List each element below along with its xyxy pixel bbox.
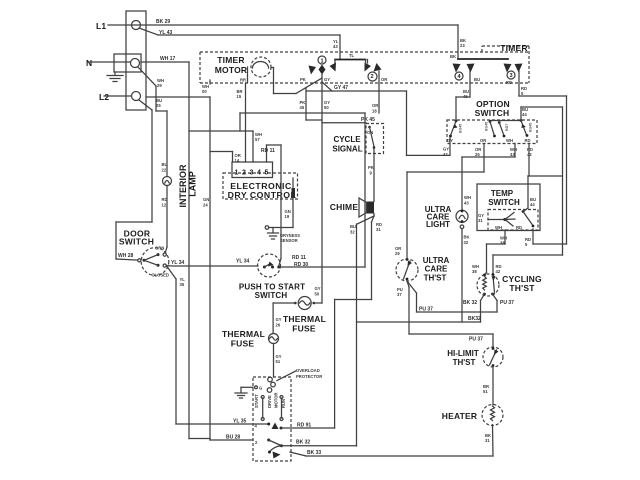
svg-text:BK: BK — [450, 54, 456, 59]
svg-text:BU45: BU45 — [529, 123, 533, 132]
svg-text:TH'ST: TH'ST — [453, 358, 476, 367]
svg-text:L2: L2 — [99, 92, 109, 102]
svg-text:15: 15 — [237, 94, 242, 99]
svg-text:47: 47 — [443, 152, 448, 157]
svg-text:23: 23 — [460, 43, 465, 48]
svg-text:51: 51 — [483, 389, 488, 394]
svg-text:5: 5 — [265, 170, 269, 177]
svg-text:42: 42 — [496, 269, 501, 274]
svg-text:TIMER: TIMER — [217, 55, 244, 65]
svg-text:43: 43 — [510, 152, 515, 157]
svg-text:FUSE: FUSE — [231, 339, 255, 349]
svg-text:RD 11: RD 11 — [292, 255, 306, 261]
svg-text:44: 44 — [530, 202, 535, 207]
svg-text:44: 44 — [522, 112, 527, 117]
svg-text:25: 25 — [156, 103, 161, 108]
svg-text:LAMP: LAMP — [188, 171, 198, 197]
svg-text:YL 43: YL 43 — [159, 30, 172, 36]
svg-text:31: 31 — [478, 218, 483, 223]
svg-text:3: 3 — [509, 73, 512, 79]
svg-text:43: 43 — [464, 201, 469, 206]
svg-text:WH: WH — [464, 195, 471, 200]
svg-text:THERMAL: THERMAL — [283, 314, 326, 324]
svg-text:N: N — [86, 58, 92, 68]
svg-text:GN: GN — [203, 197, 209, 202]
svg-text:TL: TL — [349, 53, 355, 58]
svg-text:START: START — [254, 394, 259, 408]
svg-text:PK 45: PK 45 — [361, 117, 375, 123]
svg-text:MOTOR: MOTOR — [274, 392, 279, 408]
svg-text:WH 28: WH 28 — [118, 253, 134, 259]
svg-text:MOTOR: MOTOR — [215, 65, 247, 75]
svg-text:OR: OR — [480, 138, 486, 143]
svg-text:SENSOR: SENSOR — [280, 238, 298, 243]
svg-text:SWITCH: SWITCH — [475, 108, 510, 118]
svg-text:RD7: RD7 — [505, 124, 509, 131]
svg-text:31: 31 — [376, 227, 381, 232]
svg-text:BU 28: BU 28 — [226, 435, 240, 441]
svg-text:L1: L1 — [96, 21, 106, 31]
svg-text:57: 57 — [255, 137, 260, 142]
svg-text:22: 22 — [162, 168, 167, 173]
svg-text:26: 26 — [475, 152, 480, 157]
svg-text:LIGHT: LIGHT — [426, 220, 450, 229]
svg-text:00: 00 — [202, 89, 207, 94]
svg-text:RR: RR — [240, 78, 246, 83]
svg-text:BU: BU — [350, 224, 356, 229]
svg-text:RD 91: RD 91 — [297, 423, 311, 429]
svg-text:BU: BU — [162, 162, 168, 167]
svg-text:BK 32: BK 32 — [463, 300, 477, 306]
svg-text:29: 29 — [157, 83, 162, 88]
svg-text:4: 4 — [257, 170, 261, 177]
svg-text:FUSE: FUSE — [292, 324, 316, 334]
svg-text:GY 47: GY 47 — [334, 85, 348, 91]
svg-text:3: 3 — [250, 170, 254, 177]
svg-text:BU: BU — [474, 77, 480, 82]
svg-text:CHIME: CHIME — [330, 202, 359, 212]
svg-text:TEMP: TEMP — [491, 189, 514, 198]
svg-text:WH 17: WH 17 — [160, 56, 176, 62]
svg-text:2: 2 — [242, 170, 246, 177]
svg-text:24: 24 — [203, 203, 208, 208]
svg-text:BK 32: BK 32 — [296, 440, 310, 446]
svg-text:RD: RD — [506, 80, 512, 85]
svg-text:SWITCH: SWITCH — [255, 291, 288, 300]
svg-text:38: 38 — [472, 269, 477, 274]
svg-text:12: 12 — [162, 203, 167, 208]
svg-text:GY: GY — [443, 147, 449, 152]
svg-text:BU45: BU45 — [485, 122, 489, 131]
svg-text:INTERIOR: INTERIOR — [178, 164, 188, 208]
svg-text:19: 19 — [285, 214, 290, 219]
svg-text:OVERLOAD: OVERLOAD — [296, 368, 320, 373]
svg-text:THERMAL: THERMAL — [222, 329, 265, 339]
svg-text:OR: OR — [381, 77, 387, 82]
svg-text:GY: GY — [315, 286, 321, 291]
svg-text:HEATER: HEATER — [442, 411, 478, 421]
svg-text:RD 11: RD 11 — [261, 148, 275, 154]
svg-text:OR: OR — [372, 103, 378, 108]
svg-text:1: 1 — [235, 170, 239, 177]
svg-text:TH'ST: TH'ST — [509, 283, 535, 293]
svg-text:1: 1 — [320, 58, 323, 64]
svg-text:CARE: CARE — [425, 265, 448, 274]
svg-text:TIMER: TIMER — [500, 43, 527, 53]
svg-text:YL 34: YL 34 — [171, 260, 184, 266]
svg-text:26: 26 — [276, 323, 281, 328]
svg-text:42: 42 — [527, 152, 532, 157]
svg-text:TH'ST: TH'ST — [424, 274, 447, 283]
svg-text:G: G — [259, 386, 262, 391]
svg-text:BK: BK — [464, 235, 470, 240]
svg-text:37: 37 — [397, 292, 402, 297]
svg-text:DRY CONTROL: DRY CONTROL — [228, 190, 297, 200]
svg-text:35: 35 — [180, 282, 185, 287]
svg-text:PU 37: PU 37 — [500, 300, 514, 306]
svg-text:PU 37: PU 37 — [419, 307, 433, 313]
svg-text:2: 2 — [370, 74, 373, 80]
svg-text:PK: PK — [368, 165, 374, 170]
svg-text:29: 29 — [395, 251, 400, 256]
svg-text:PROTECTOR: PROTECTOR — [296, 374, 322, 379]
svg-text:BK 33: BK 33 — [307, 450, 321, 456]
svg-text:32: 32 — [464, 240, 469, 245]
svg-text:BU45: BU45 — [459, 124, 463, 133]
svg-text:SIGNAL: SIGNAL — [332, 145, 362, 154]
svg-text:50: 50 — [315, 292, 320, 297]
svg-text:CLOSED: CLOSED — [152, 273, 169, 278]
svg-text:RD: RD — [525, 138, 531, 143]
svg-text:GY: GY — [447, 138, 453, 143]
svg-text:51: 51 — [276, 359, 281, 364]
svg-text:WH: WH — [506, 138, 513, 143]
svg-text:SWITCH: SWITCH — [119, 237, 154, 247]
svg-text:31: 31 — [485, 438, 490, 443]
svg-text:YL 34: YL 34 — [236, 259, 249, 265]
svg-text:SWITCH: SWITCH — [488, 198, 520, 207]
svg-text:45: 45 — [300, 105, 305, 110]
svg-text:RD 30: RD 30 — [294, 262, 308, 268]
svg-text:WH: WH — [495, 225, 502, 230]
svg-text:YL 35: YL 35 — [233, 419, 246, 425]
svg-text:45: 45 — [463, 94, 468, 99]
svg-text:GY: GY — [324, 77, 330, 82]
svg-text:DRIVE: DRIVE — [267, 395, 272, 408]
svg-text:PK: PK — [300, 77, 306, 82]
svg-text:38: 38 — [500, 241, 505, 246]
svg-text:HI-LIMIT: HI-LIMIT — [447, 349, 479, 358]
svg-text:CYCLE: CYCLE — [333, 135, 361, 144]
svg-text:GY: GY — [276, 317, 282, 322]
svg-text:PU 37: PU 37 — [469, 337, 483, 343]
svg-text:43: 43 — [333, 44, 338, 49]
svg-text:RD: RD — [162, 197, 168, 202]
svg-text:32: 32 — [350, 230, 355, 235]
svg-text:RD: RD — [516, 225, 522, 230]
svg-text:BK32: BK32 — [468, 316, 481, 322]
svg-text:BK 29: BK 29 — [156, 19, 170, 25]
svg-text:GRN: GRN — [155, 246, 164, 251]
svg-text:14: 14 — [235, 158, 240, 163]
svg-text:50: 50 — [324, 105, 329, 110]
svg-text:18: 18 — [372, 109, 377, 114]
